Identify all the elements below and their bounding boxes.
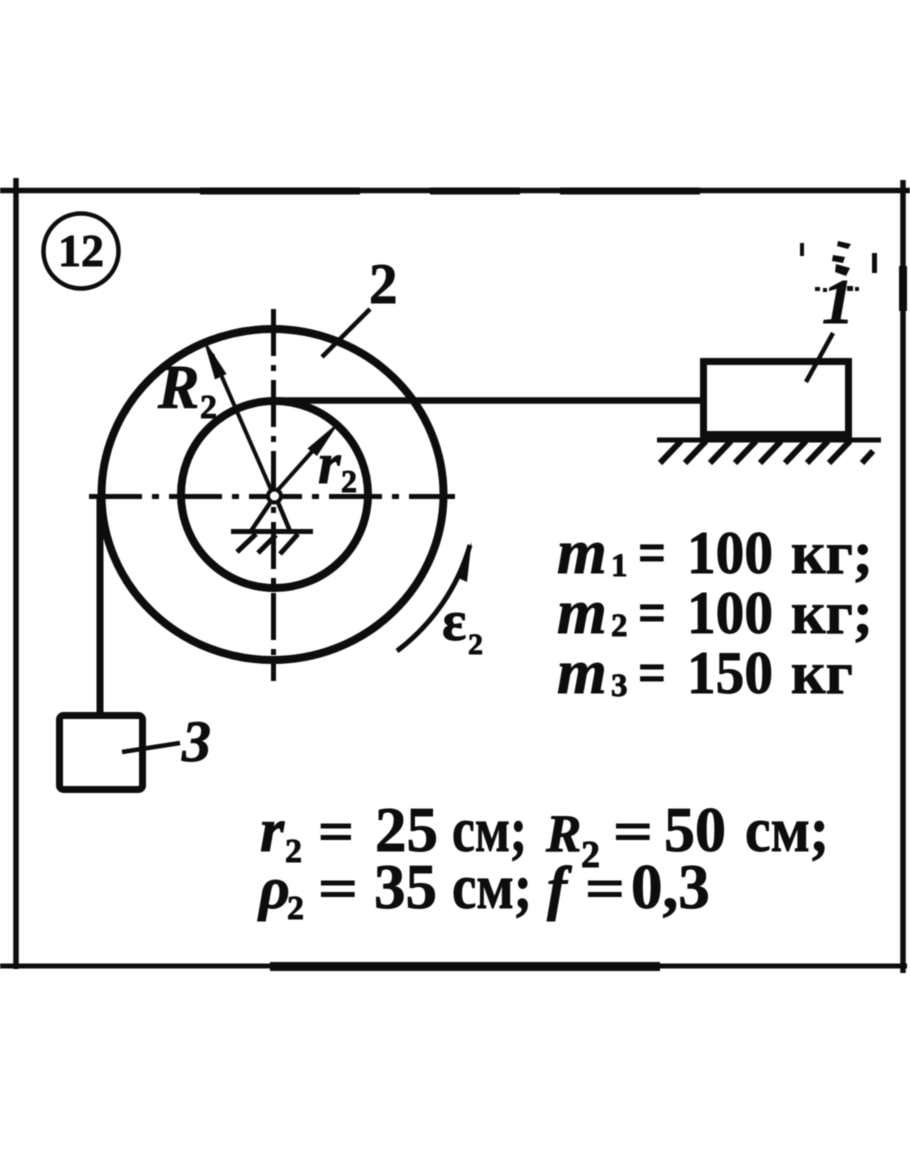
mass text line m2 xyxy=(557,576,873,647)
svg-text:100: 100 xyxy=(687,520,773,586)
svg-text:2: 2 xyxy=(611,608,628,644)
horizontal centerline xyxy=(89,494,455,499)
svg-text:кг: кг xyxy=(791,640,853,706)
svg-text:кг;: кг; xyxy=(791,520,873,586)
pivot support triangle xyxy=(231,500,313,532)
block 1 xyxy=(704,362,849,435)
svg-text:2: 2 xyxy=(468,628,483,661)
svg-text:2: 2 xyxy=(341,463,357,499)
rope from drum to block 1 xyxy=(272,397,704,404)
svg-text:=: = xyxy=(318,799,354,864)
svg-text:=: = xyxy=(638,640,666,706)
label 3 with leader xyxy=(122,709,211,774)
pulley outer circle (wheel 2, radius R2) xyxy=(102,329,444,660)
svg-text:ρ: ρ xyxy=(257,855,290,921)
figure number badge (12) xyxy=(44,214,119,289)
svg-text:2: 2 xyxy=(287,890,304,927)
svg-text:150: 150 xyxy=(687,640,773,706)
svg-text:кг;: кг; xyxy=(791,580,873,646)
svg-text:1: 1 xyxy=(822,266,854,337)
pivot hub xyxy=(268,490,281,503)
svg-text:0,3: 0,3 xyxy=(631,852,710,922)
block 3 xyxy=(60,716,143,790)
angular acceleration arrow e2 xyxy=(397,542,472,651)
svg-text:3: 3 xyxy=(181,709,211,774)
radius arrow R2 xyxy=(203,338,272,492)
radius arrow r2 xyxy=(277,421,340,491)
svg-text:1: 1 xyxy=(611,548,628,584)
frame bottom border xyxy=(0,962,907,971)
svg-text:100: 100 xyxy=(687,580,773,646)
svg-text:12: 12 xyxy=(58,225,104,276)
rope to block 3 xyxy=(97,497,104,714)
pulley inner circle (drum, radius r2) xyxy=(181,401,368,588)
svg-text:2: 2 xyxy=(369,253,398,316)
formula line rho2 f xyxy=(257,852,710,927)
svg-text:35: 35 xyxy=(374,852,437,922)
svg-text:см;: см; xyxy=(452,852,532,922)
frame left border xyxy=(13,178,19,969)
vertical centerline xyxy=(271,309,276,681)
svg-text:=: = xyxy=(585,856,625,921)
svg-text:=: = xyxy=(638,580,666,646)
ground under block 1 xyxy=(657,440,881,463)
label r2 xyxy=(318,431,357,499)
pivot support hatching xyxy=(237,534,298,554)
svg-text:=: = xyxy=(318,856,358,921)
svg-text:m: m xyxy=(557,636,607,707)
print artifacts above label 1 xyxy=(800,241,877,292)
svg-text:R: R xyxy=(157,354,199,422)
label 2 with leader xyxy=(322,253,398,357)
frame right border xyxy=(899,180,907,973)
svg-text:=: = xyxy=(638,520,666,586)
frame top border xyxy=(0,188,910,195)
label 1 with leader xyxy=(806,266,854,382)
svg-text:ε: ε xyxy=(442,590,466,653)
svg-text:3: 3 xyxy=(611,668,628,704)
svg-text:см;: см; xyxy=(745,795,829,865)
formula line r2 R2 xyxy=(260,795,829,876)
label R2 xyxy=(157,354,217,426)
mass text line m1 xyxy=(557,516,873,587)
svg-text:2: 2 xyxy=(200,389,217,426)
label e2 xyxy=(442,590,483,661)
svg-text:r: r xyxy=(318,431,341,496)
mass text line m3 xyxy=(557,636,853,707)
